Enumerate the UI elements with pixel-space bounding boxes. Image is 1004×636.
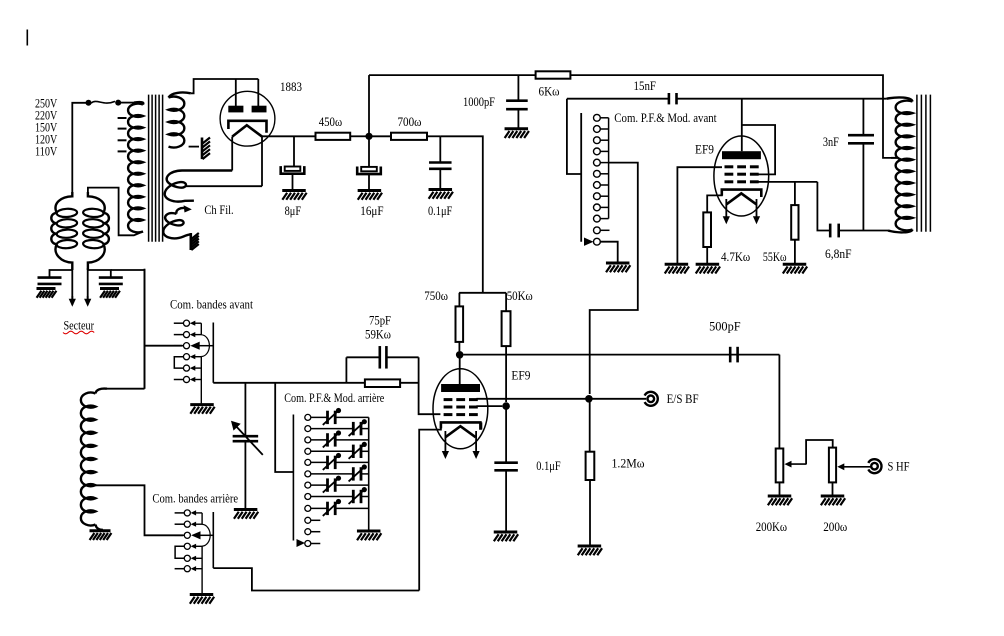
- red spellcheck underline: [63, 331, 94, 334]
- wire 1883 output: [262, 135, 316, 137]
- primary voltage taps: [118, 118, 127, 151]
- wire P1 to ground: [779, 482, 781, 495]
- common line bands avant: [200, 323, 202, 403]
- svg-text:0.1μF: 0.1μF: [536, 459, 560, 473]
- svg-text:Com. bandes arrière: Com. bandes arrière: [152, 491, 238, 505]
- svg-text:EF9: EF9: [511, 369, 530, 383]
- tube U2 EF9: [433, 369, 488, 449]
- label Com. P.F.&amp; Mod. avant: [614, 111, 717, 125]
- transformer T1 rectifier filament winding: [165, 171, 233, 202]
- wire U1 cathode right leg: [760, 190, 762, 196]
- wire varcap to ground: [244, 441, 246, 508]
- svg-text:Com. P.F.& Mod. avant: Com. P.F.& Mod. avant: [614, 111, 717, 125]
- label 16uF: [360, 204, 383, 218]
- svg-text:1883: 1883: [280, 80, 302, 94]
- wire 3nF branch: [862, 99, 864, 136]
- ground U1 g1: [665, 264, 689, 273]
- svg-text:750ω: 750ω: [424, 289, 448, 303]
- resistor R9 59Kw: [365, 379, 400, 387]
- wire U1 g1 to ground: [677, 167, 722, 263]
- wire bus tap to BF line: [590, 163, 638, 394]
- svg-text:Com. bandes avant: Com. bandes avant: [170, 298, 253, 312]
- wiper bands avant: [190, 323, 213, 383]
- label 8uF: [285, 204, 302, 218]
- choke L1: [51, 192, 77, 270]
- tube 1883 anode 2: [252, 106, 267, 113]
- label 700w: [398, 115, 422, 129]
- trimmer capacitors: [323, 408, 367, 516]
- tube 1883 anode 1: [228, 106, 243, 113]
- rotary switch bands avant contacts: [174, 320, 190, 382]
- wire antenna top: [107, 388, 145, 390]
- svg-text:Secteur: Secteur: [64, 319, 95, 333]
- svg-text:S HF: S HF: [888, 460, 910, 474]
- svg-text:1000pF: 1000pF: [463, 95, 495, 109]
- wire mains right: [87, 268, 89, 299]
- wire avant wiper feed: [580, 113, 582, 242]
- label 500pF: [709, 319, 741, 333]
- wire R4 to ground: [706, 247, 708, 263]
- svg-text:110V: 110V: [35, 144, 58, 158]
- svg-text:4.7Kω: 4.7Kω: [721, 250, 750, 264]
- arrow U2 filament right: [473, 431, 480, 459]
- wire U2 cathode: [419, 422, 441, 590]
- chassis ground ChFil: [191, 233, 199, 250]
- ground R4: [696, 264, 720, 273]
- wire 16uF branch: [368, 139, 370, 167]
- wire 0.1uF branch: [439, 136, 441, 162]
- contact arrows bands arriere: [191, 510, 203, 571]
- arrow U2 filament left: [442, 431, 449, 459]
- wire 16uF to ground: [368, 175, 370, 190]
- ground trimmer bank: [357, 531, 381, 540]
- arrow U1 filament left: [723, 199, 730, 224]
- svg-text:55Kω: 55Kω: [763, 250, 787, 264]
- wire 3nF to 6.8nF line: [862, 143, 864, 230]
- svg-text:6Kω: 6Kω: [539, 85, 560, 99]
- potentiometer P2 200w: [829, 448, 836, 483]
- contact arrows bands avant: [190, 321, 202, 383]
- label 1883: [280, 80, 302, 94]
- resistor R6 750w: [456, 306, 464, 342]
- transformer T1 HT secondary: [169, 92, 191, 147]
- svg-text:200ω: 200ω: [823, 520, 847, 534]
- tube 1883 envelope: [220, 91, 275, 146]
- wire U1 g2 jog: [742, 125, 775, 174]
- svg-text:Com. P.F.& Mod. arrière: Com. P.F.& Mod. arrière: [284, 391, 384, 405]
- label 450w: [319, 115, 342, 129]
- svg-text:450ω: 450ω: [319, 115, 342, 129]
- capacitor C3 0.1uF: [429, 163, 452, 169]
- ground R5: [783, 264, 807, 273]
- rotary switch PF avant bus: [608, 118, 610, 219]
- svg-text:59Kω: 59Kω: [365, 327, 391, 341]
- node g2 junction: [502, 402, 510, 410]
- wire varcap branch: [244, 383, 246, 436]
- svg-text:E/S BF: E/S BF: [667, 392, 699, 406]
- wiper bands arriere: [191, 512, 213, 568]
- wiper P1: [785, 461, 807, 468]
- wire avant wiper output: [213, 382, 365, 384]
- svg-text:3nF: 3nF: [823, 135, 839, 149]
- wire 75pF line: [346, 356, 418, 358]
- text cursor artifact: [26, 30, 28, 46]
- ground 16uF: [358, 191, 382, 200]
- wire R6 to node: [458, 342, 460, 351]
- wire anode 2 drop: [257, 79, 259, 106]
- antenna coil L3: [81, 389, 107, 530]
- wire U2 g3 line: [419, 384, 441, 415]
- transformer T1 core: [149, 95, 163, 242]
- wire primary bottom to choke R: [88, 188, 143, 236]
- capacitor C9 500pF: [730, 347, 737, 363]
- label 3nF: [823, 135, 839, 149]
- ground bands arriere: [190, 595, 214, 604]
- wiper arrow avant PF switch: [584, 238, 594, 246]
- label 0.1uF bottom: [536, 459, 560, 473]
- capacitor C6 6.8nF: [830, 224, 839, 238]
- svg-text:0.1μF: 0.1μF: [428, 204, 452, 218]
- wire T2 tap: [891, 157, 897, 159]
- label 750w: [424, 289, 448, 303]
- wire 0.1uF to ground: [505, 470, 507, 531]
- wire U2 cathode right leg: [480, 422, 482, 429]
- label EF9 bottom: [511, 369, 530, 383]
- bank left rail: [292, 415, 294, 541]
- wire 0.1uF to ground: [439, 169, 441, 189]
- label 120V: [35, 132, 58, 146]
- label 15nF: [634, 79, 657, 93]
- wire to mains cap right: [88, 270, 111, 278]
- wire combo left riser: [345, 357, 347, 383]
- wire R7 bottom: [505, 346, 507, 402]
- common line bands arriere: [201, 513, 203, 594]
- wire switch to left choke: [72, 103, 88, 192]
- label 59Kw: [365, 327, 391, 341]
- label 1000pF: [463, 95, 495, 109]
- arrow mains right: [84, 296, 91, 307]
- wire switch line down: [589, 399, 591, 452]
- wire to mains cap left: [50, 270, 73, 278]
- ground P2: [821, 496, 845, 505]
- wire switch to primary: [118, 102, 134, 104]
- wire 8uF branch: [293, 136, 295, 166]
- hop arc bands avant: [201, 335, 209, 357]
- label S HF: [888, 460, 910, 474]
- node switch right contact: [115, 100, 121, 106]
- wire 59K to riser: [400, 382, 419, 384]
- svg-text:6,8nF: 6,8nF: [825, 247, 852, 261]
- resistor R5 55Kw: [791, 205, 798, 240]
- wire HT secondary lower to ground: [189, 146, 199, 148]
- wire combo right riser: [418, 357, 420, 383]
- wire 500pF to pot: [778, 355, 780, 449]
- wire U1 anode: [741, 99, 743, 152]
- variable capacitor CV1: [231, 421, 263, 455]
- wire U1 g3 line: [758, 181, 817, 183]
- wire 6.8nF to coil bottom: [839, 230, 888, 232]
- svg-text:50Kω: 50Kω: [507, 289, 533, 303]
- arrow U1 filament right: [753, 199, 760, 224]
- wire 450w to node: [350, 135, 366, 137]
- wire mains left: [71, 268, 73, 299]
- wire g2 down to 0.1uF: [505, 406, 507, 463]
- svg-text:200Kω: 200Kω: [756, 520, 787, 534]
- svg-text:Ch Fil.: Ch Fil.: [204, 203, 233, 217]
- wire ChFil winding to ground: [190, 235, 192, 236]
- wire g3 down to 6.8nF: [817, 182, 830, 231]
- wire U2 anode: [459, 355, 461, 385]
- label Com. P.F.&amp; Mod. arriere: [284, 391, 384, 405]
- label 6,8nF: [825, 247, 852, 261]
- ground 1000pF: [505, 129, 529, 138]
- hop arc bands arriere: [202, 524, 210, 546]
- capacitor C4 1000pF: [506, 101, 528, 110]
- label 110V: [35, 144, 58, 158]
- wiper P2 from S HF: [837, 463, 871, 470]
- tube 1883 cathode bracket: [228, 121, 266, 133]
- trimmer bank bus: [368, 417, 370, 530]
- resistor R4 4.7Kw: [703, 212, 711, 247]
- rotary switch PF avant contacts: [594, 114, 610, 245]
- wire B+ rail up: [368, 75, 370, 136]
- resistor R3 6Kw: [536, 71, 571, 78]
- rotary switch bands arriere contacts: [175, 510, 191, 572]
- capacitor C8 0.1uF: [494, 463, 517, 471]
- wire B+ rail top: [369, 74, 536, 76]
- svg-text:8μF: 8μF: [285, 204, 302, 218]
- wire R5 to ground: [794, 240, 796, 263]
- label 250V: [35, 96, 58, 110]
- wire bank feed: [275, 383, 293, 472]
- node switch left contact: [86, 100, 92, 106]
- transformer T1 Ch Fil winding: [163, 205, 192, 238]
- wire antenna node to avant wiper contact: [145, 269, 183, 389]
- wire 700w to 0.1uF junction: [427, 135, 440, 137]
- capacitor C10 75pF: [380, 346, 387, 369]
- transformer T1 primary winding: [128, 102, 143, 232]
- label 50Kw: [507, 289, 533, 303]
- trimmer bank contacts: [305, 414, 369, 546]
- wiper arrow bank: [297, 539, 306, 547]
- connector S HF: [868, 459, 881, 473]
- label 75pF: [369, 314, 391, 328]
- wire filament winding tap: [186, 185, 263, 187]
- ground R8: [578, 546, 602, 555]
- resistor R1 450w: [316, 133, 351, 140]
- label 220V: [35, 108, 58, 122]
- capacitor mains filter left: [38, 278, 62, 284]
- label 150V: [35, 120, 58, 134]
- label 55Kw: [763, 250, 787, 264]
- node anode junction: [456, 351, 464, 359]
- resistor R7 50Kw: [502, 311, 511, 346]
- wire 15nF left corner: [567, 99, 581, 174]
- wire arriere wiper to U2 cathode: [213, 568, 419, 590]
- svg-text:15nF: 15nF: [634, 79, 657, 93]
- resistor R8 1.2Mw: [586, 452, 595, 480]
- wire 1000pF to ground: [517, 109, 519, 128]
- tube U1 EF9: [714, 136, 769, 216]
- arrow mains left: [69, 296, 76, 307]
- connector E/S BF: [645, 392, 658, 406]
- capacitor C7 3nF: [848, 135, 874, 143]
- wire node to 700w: [372, 135, 391, 137]
- capacitor C2 16uF: [357, 167, 381, 175]
- label 200Kw: [756, 520, 787, 534]
- wire antenna tap: [96, 485, 183, 535]
- capacitor mains filter right: [99, 278, 123, 284]
- label 6Kw: [539, 85, 560, 99]
- resistor R2 700w: [391, 133, 427, 140]
- label E/S BF: [667, 392, 699, 406]
- capacitor C5 15nF: [669, 93, 677, 104]
- svg-text:700ω: 700ω: [398, 115, 422, 129]
- node BF junction: [585, 395, 593, 403]
- ground bands avant: [190, 405, 214, 414]
- label Secteur: [64, 319, 95, 333]
- wire P2 to ground: [832, 482, 834, 495]
- label 1.2Mw: [612, 457, 645, 471]
- svg-text:EF9: EF9: [695, 143, 714, 157]
- choke L2: [83, 192, 109, 270]
- ground mains cap right: [100, 289, 120, 298]
- ground antenna coil: [90, 531, 112, 540]
- wire anode 1 drop: [235, 79, 237, 106]
- potentiometer P1 200Kw: [776, 449, 784, 483]
- wire 15nF line: [567, 98, 887, 100]
- chassis ground HT secondary: [202, 138, 210, 160]
- ground P1: [768, 496, 792, 505]
- capacitor C1 8uF: [281, 166, 305, 174]
- node B+ junction: [365, 133, 372, 140]
- label Com. bandes arriere: [152, 491, 238, 505]
- ground PF avant: [606, 263, 630, 272]
- ground varcap: [234, 510, 258, 519]
- wire avant wiper to ground: [600, 242, 617, 262]
- ground 0.1uF: [429, 190, 453, 199]
- wire U2 g1 line: [476, 398, 646, 400]
- wire R5 top: [794, 182, 796, 205]
- output transformer T2 winding: [887, 97, 913, 232]
- output transformer T2 core: [917, 95, 931, 232]
- svg-text:500pF: 500pF: [709, 319, 741, 333]
- ground 8uF: [282, 191, 306, 200]
- ground mains cap left: [37, 289, 57, 298]
- wire anode line right: [464, 354, 780, 356]
- ground C8: [494, 532, 518, 541]
- wire 1000pF branch: [517, 75, 519, 101]
- switch blade S1: [91, 101, 115, 103]
- label EF9 top: [695, 143, 714, 157]
- wire R8 to ground: [589, 480, 591, 545]
- wire HT secondary to anodes: [191, 79, 258, 93]
- wire U1 cathode to R4: [707, 190, 722, 213]
- label 4.7Kw: [721, 250, 750, 264]
- label Com. bandes avant: [170, 298, 253, 312]
- wire P1 wiper to P2: [806, 440, 833, 464]
- label 0.1uF top: [428, 204, 452, 218]
- wire screen splitter: [459, 293, 506, 311]
- label Ch Fil.: [204, 203, 233, 217]
- wire 1883 filament left to winding: [231, 137, 233, 171]
- wire B+ after 6Kw: [570, 75, 891, 158]
- tube 1883 filament: [232, 125, 262, 136]
- wire 1883 filament right down: [261, 137, 263, 187]
- wire U2 g2 line: [476, 405, 502, 407]
- label 200w: [823, 520, 847, 534]
- svg-text:75pF: 75pF: [369, 314, 391, 328]
- wire 8uF to ground: [292, 174, 294, 189]
- wire mains junction to band switch: [111, 270, 145, 389]
- svg-text:16μF: 16μF: [360, 204, 383, 218]
- wire to screen feed: [440, 136, 483, 292]
- svg-text:1.2Mω: 1.2Mω: [612, 457, 645, 471]
